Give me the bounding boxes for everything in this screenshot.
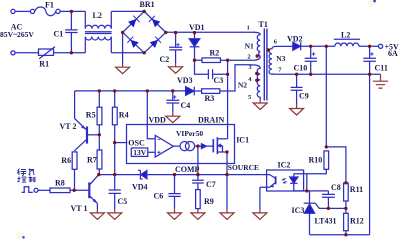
VDD pin stub into IC1 [147, 91, 155, 139]
scan artifact bottom-left [17, 232, 25, 240]
svg-text:R4: R4 [119, 110, 129, 119]
BR1 diode lower-right [151, 40, 158, 47]
ground under C6 [168, 209, 182, 220]
svg-text:R10: R10 [309, 155, 323, 164]
wire AC live to fuse [15, 10, 30, 12]
resistor R5 [98, 91, 100, 107]
IC1 box [127, 125, 235, 164]
svg-text:C5: C5 [118, 197, 128, 206]
bridge rectifier BR1 [123, 11, 166, 52]
MOSFET in IC1 [212, 139, 214, 152]
junction C10 bottom [309, 73, 312, 76]
resistor R2 [195, 59, 203, 61]
junction C3 right [226, 73, 229, 76]
junction VT1 collector-R7-COMP rail [97, 173, 100, 176]
svg-text:C7: C7 [206, 180, 216, 189]
resistor R9 [196, 190, 201, 209]
zener VD4 [141, 170, 147, 178]
junction R10 top node [325, 145, 328, 148]
BR1 diode lower-left [131, 40, 138, 47]
svg-text:N2: N2 [238, 80, 247, 89]
svg-text:BR1: BR1 [140, 0, 155, 9]
svg-text:DRAIN: DRAIN [198, 116, 224, 125]
svg-text:C3: C3 [214, 76, 224, 85]
junction R4 top on VDD bus [113, 89, 116, 92]
svg-text:VD3: VD3 [177, 76, 193, 85]
fuse F1 [30, 9, 34, 13]
earth ground under C11 [373, 74, 388, 88]
junction C11 top [368, 45, 371, 48]
feedback sense line from +5V down to R10 node [325, 46, 327, 147]
svg-text:C11: C11 [375, 63, 388, 72]
scan artifact top-right [368, 0, 376, 7]
char 控 [17, 177, 26, 183]
shunt regulator IC3 LT431 [307, 191, 310, 203]
winding N1 [252, 32, 261, 60]
drain line from snubber node into IC1 [227, 60, 229, 139]
svg-text:C4: C4 [181, 101, 191, 110]
svg-text:R3: R3 [205, 94, 215, 103]
polarity dot N2 pin3 [255, 72, 258, 75]
wire BR1 left corner down to primary ground [122, 32, 124, 63]
+5V output terminal [379, 44, 383, 48]
junction R11-R12-ref [344, 207, 347, 210]
ground under IC2 emitter [253, 209, 267, 219]
wire L2 bottom to BR1 bottom corner [111, 52, 144, 54]
capacitor C7 [192, 175, 204, 190]
transistor arrows [81, 125, 97, 203]
junction C5 on COMP rail [113, 173, 116, 176]
svg-text:IC1: IC1 [236, 135, 249, 144]
bridge diodes of BR1 [127, 16, 161, 47]
output choke L2 [334, 38, 360, 40]
junction LED cathode-LT431-C8 [305, 189, 308, 192]
primary ground symbols (triangle style) [90, 63, 388, 219]
VDD bus left end down to VT2 emitter [74, 91, 76, 119]
wire R1 to L2 [54, 52, 86, 54]
wire AC neutral to R1 [15, 52, 38, 54]
BR1 diode upper-left [129, 20, 136, 27]
capacitor C4 [166, 91, 179, 113]
svg-text:R9: R9 [204, 197, 214, 206]
junction C8 bottom on ref wire [327, 207, 330, 210]
svg-text:N3: N3 [276, 54, 285, 63]
comparator in IC1 [155, 135, 173, 157]
IC2 LED [293, 174, 295, 177]
svg-text:VD1: VD1 [189, 23, 205, 32]
label 待机控制 (hand-drawn strokes) [17, 169, 35, 183]
svg-text:7: 7 [278, 67, 281, 74]
resistor R10 [324, 151, 329, 169]
diode VD1 [194, 33, 196, 39]
capacitor C5 [109, 190, 121, 209]
svg-text:C1: C1 [54, 30, 64, 39]
svg-text:1: 1 [247, 24, 250, 31]
VDD bus [75, 90, 186, 92]
capacitor C9 [291, 74, 303, 104]
wire L2 top to BR1 top corner [111, 10, 144, 12]
char 待 [17, 169, 26, 176]
svg-text:N1: N1 [245, 41, 254, 50]
svg-text:85V~265V: 85V~265V [0, 30, 34, 39]
polarity dot N1 [256, 54, 259, 57]
arrow to MOSFET gate [201, 144, 206, 149]
svg-text:OSC: OSC [128, 139, 145, 148]
ground under N2 pin5 [253, 99, 267, 110]
svg-text:R12: R12 [350, 216, 364, 225]
resistor R12 [344, 213, 349, 230]
resistor R6 [72, 152, 77, 169]
transistor VT1 [88, 182, 90, 198]
junction R12 bottom on return [344, 233, 347, 236]
capacitor C2 [169, 33, 182, 63]
svg-text:R7: R7 [87, 156, 97, 165]
secondary return rail from pin7 [277, 73, 381, 75]
output return vertical from C11 node [369, 74, 371, 235]
standby control pulse symbol [22, 187, 33, 193]
svg-text:IC3: IC3 [292, 206, 305, 215]
svg-text:VT 2: VT 2 [60, 122, 77, 131]
svg-text:SOURCE: SOURCE [228, 163, 259, 172]
junction VT2 base-R5-R7 [98, 133, 101, 136]
capacitor C10 [305, 46, 317, 74]
svg-text:VDD: VDD [149, 116, 167, 125]
char 机 [29, 169, 35, 176]
winding N2 [250, 65, 261, 99]
capacitor C11 [363, 46, 376, 74]
junction C10 top [309, 45, 312, 48]
transformer T1 core [264, 29, 267, 101]
ground under C2 [169, 63, 183, 73]
junction C1 bottom [70, 51, 73, 54]
svg-text:VIPer50: VIPer50 [176, 129, 203, 138]
junction R4-OSC tap [113, 141, 116, 144]
junction C1 top [70, 10, 73, 13]
+5V output wire [301, 45, 335, 47]
junction VD1-R2-C3 node [193, 59, 196, 62]
ground under C9 [290, 105, 304, 115]
svg-text:6A: 6A [388, 49, 398, 58]
wire R3 to N2 pin3 [220, 65, 250, 91]
svg-text:R5: R5 [86, 110, 96, 119]
svg-text:L2: L2 [93, 11, 102, 20]
diode VD2 [293, 42, 301, 50]
SOURCE pin line down to ground [226, 153, 228, 210]
junction BR1 top corner [143, 10, 146, 13]
resistor R4 [114, 91, 116, 107]
AC input terminal bottom [11, 51, 15, 55]
13V box [131, 148, 148, 156]
standby control terminal [34, 188, 38, 192]
junction SOURCE line on rail [225, 173, 228, 176]
svg-text:VD4: VD4 [132, 182, 148, 191]
common-mode choke L2 [84, 11, 86, 28]
junction C6 on COMP rail [173, 173, 176, 176]
capacitor C8 [307, 191, 335, 209]
capacitor C6 [168, 175, 180, 209]
svg-text:IC2: IC2 [278, 161, 291, 170]
junction R11 top [344, 181, 347, 184]
COMP rail [99, 174, 267, 176]
junction feedback sense on +5V [325, 45, 328, 48]
svg-text:C10: C10 [294, 64, 308, 73]
resistor R11 [344, 183, 349, 201]
svg-text:3: 3 [249, 64, 252, 71]
junction C2 top [174, 31, 177, 34]
wire R10 bottom to IC2 LED anode [294, 169, 327, 174]
ground under SOURCE pin [220, 209, 234, 219]
svg-text:C9: C9 [299, 92, 309, 101]
svg-text:LT431: LT431 [315, 216, 337, 225]
svg-text:L2: L2 [341, 30, 350, 39]
svg-text:13V: 13V [133, 148, 147, 157]
junction R6-R8-VT1 base [73, 189, 76, 192]
AC input terminal top [11, 9, 15, 13]
ground under BR1 left corner [116, 63, 130, 73]
svg-text:R8: R8 [55, 179, 65, 188]
svg-text:R2: R2 [210, 48, 220, 57]
bottom return rail [310, 234, 370, 236]
svg-text:VD2: VD2 [287, 35, 303, 44]
svg-text:C2: C2 [160, 55, 170, 64]
capacitor C3 [195, 60, 228, 79]
current source symbol in IC1 [180, 142, 189, 151]
resistor R3 [194, 90, 201, 92]
junction C9 on return rail [295, 73, 298, 76]
wire R10 node to R11 chain [326, 147, 346, 183]
IC2 phototransistor [275, 176, 277, 184]
VT1 emitter arrow (NPN) [93, 199, 98, 204]
svg-text:C8: C8 [331, 183, 341, 192]
vertical link outside IC2 right edge [306, 174, 308, 191]
junction COMP pin on rail [196, 173, 199, 176]
resistor R8 [38, 189, 50, 191]
svg-text:6: 6 [274, 39, 277, 46]
varistor R1 [39, 49, 54, 55]
R4 line down through OSC tap to C5 [114, 125, 116, 190]
junction C4 on VDD bus [171, 89, 174, 92]
LT431 ref tick and ref wire [315, 203, 346, 208]
junction VD1 anode rail [193, 31, 196, 34]
char 制 [29, 177, 36, 183]
svg-text:R6: R6 [61, 156, 71, 165]
wire fuse to C1 node and L2 [60, 10, 85, 12]
ground under R9 [191, 209, 205, 219]
capacitor C1 [65, 11, 77, 52]
svg-text:R1: R1 [39, 60, 49, 69]
junction R5 top on VDD bus [98, 89, 101, 92]
svg-text:VT 1: VT 1 [71, 204, 88, 213]
junction C11 bottom [368, 73, 371, 76]
junction BR1 left corner [121, 31, 124, 34]
BR1 diode upper-right [153, 20, 160, 27]
COMP pin stub [197, 146, 199, 175]
diode VD3 [186, 87, 194, 96]
ground under C4 [166, 112, 180, 122]
transistor VT2 base wire [87, 134, 99, 136]
IC2 optocoupler box [267, 170, 304, 191]
svg-text:C6: C6 [154, 192, 164, 201]
wire R2 to T1 pin2 [220, 59, 253, 61]
svg-text:5: 5 [248, 94, 251, 101]
wire OSC tap [115, 142, 128, 144]
svg-text:2: 2 [247, 53, 250, 60]
junction comparator output node [196, 144, 199, 147]
resistor R7 [97, 150, 102, 169]
junction VDD stub on bus [146, 89, 149, 92]
ground under C5 [108, 209, 122, 220]
ground under VT1 emitter [90, 209, 104, 219]
IC2 light arrows [282, 178, 287, 183]
DC+ rail BR1 to T1 pin1 [166, 31, 252, 33]
junction BR1 right corner [164, 31, 167, 34]
junction BR1 bottom corner [143, 51, 146, 54]
svg-text:R11: R11 [350, 185, 363, 194]
junction R2-pin2 drain node [226, 59, 229, 62]
VT2 emitter arrow (PNP) [81, 125, 86, 129]
transistor VT2 [86, 126, 88, 143]
polarity dot N3 [267, 48, 270, 51]
svg-text:F1: F1 [45, 0, 54, 9]
junction MOSFET source [225, 150, 228, 153]
svg-text:COMP: COMP [175, 165, 200, 174]
winding N3 [269, 46, 293, 74]
svg-text:T1: T1 [259, 20, 268, 29]
polarity dot N2 pin4 [255, 79, 258, 82]
